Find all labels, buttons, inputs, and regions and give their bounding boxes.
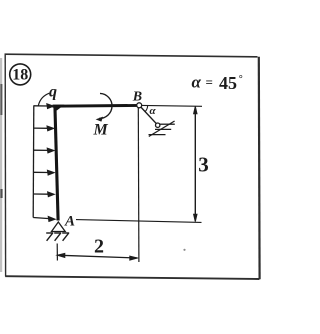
problem number 18 badge	[10, 64, 31, 85]
svg-text:=: =	[206, 75, 213, 90]
pin B	[137, 103, 142, 108]
extension line right of A	[76, 220, 202, 223]
load arrow 5	[33, 192, 54, 197]
svg-text:α: α	[192, 73, 202, 92]
member AB top horizontal chord	[52, 105, 140, 111]
dimension 2 line	[57, 253, 137, 260]
svg-text:2: 2	[94, 236, 104, 258]
member A column vertical	[55, 105, 58, 221]
load arrow 2	[34, 126, 54, 131]
roller pin circle	[156, 123, 160, 127]
svg-text:A: A	[64, 214, 75, 230]
svg-text:M: M	[93, 122, 109, 139]
dimension 2 left extension line	[56, 244, 58, 261]
extension line right of B	[142, 104, 202, 107]
load arrow 4	[34, 170, 55, 175]
svg-text:45: 45	[219, 73, 237, 93]
label alpha = 45 deg	[192, 73, 243, 94]
roller link strut at B	[141, 107, 157, 124]
svg-text:q: q	[49, 84, 57, 101]
svg-text:B: B	[132, 90, 142, 105]
ground hatching at A	[46, 233, 69, 241]
load arrow 3	[34, 148, 54, 153]
svg-text:3: 3	[198, 153, 209, 177]
svg-text:18: 18	[12, 67, 28, 84]
distributed load q envelope line	[32, 105, 35, 217]
svg-text:°: °	[239, 74, 243, 85]
load arrow 6	[33, 216, 55, 221]
extension line below B (right extension of dim 2)	[137, 108, 140, 263]
label q	[38, 84, 57, 106]
angle alpha arc at B	[145, 106, 147, 112]
dimension 3 vertical line	[194, 106, 197, 221]
stray speck	[183, 249, 185, 251]
pin support A triangle	[52, 222, 66, 232]
moment M arc	[96, 93, 112, 121]
svg-text:α: α	[150, 105, 157, 117]
ground at B	[149, 121, 175, 137]
page gutter shadow	[0, 58, 3, 272]
load arrow 1	[34, 104, 54, 109]
